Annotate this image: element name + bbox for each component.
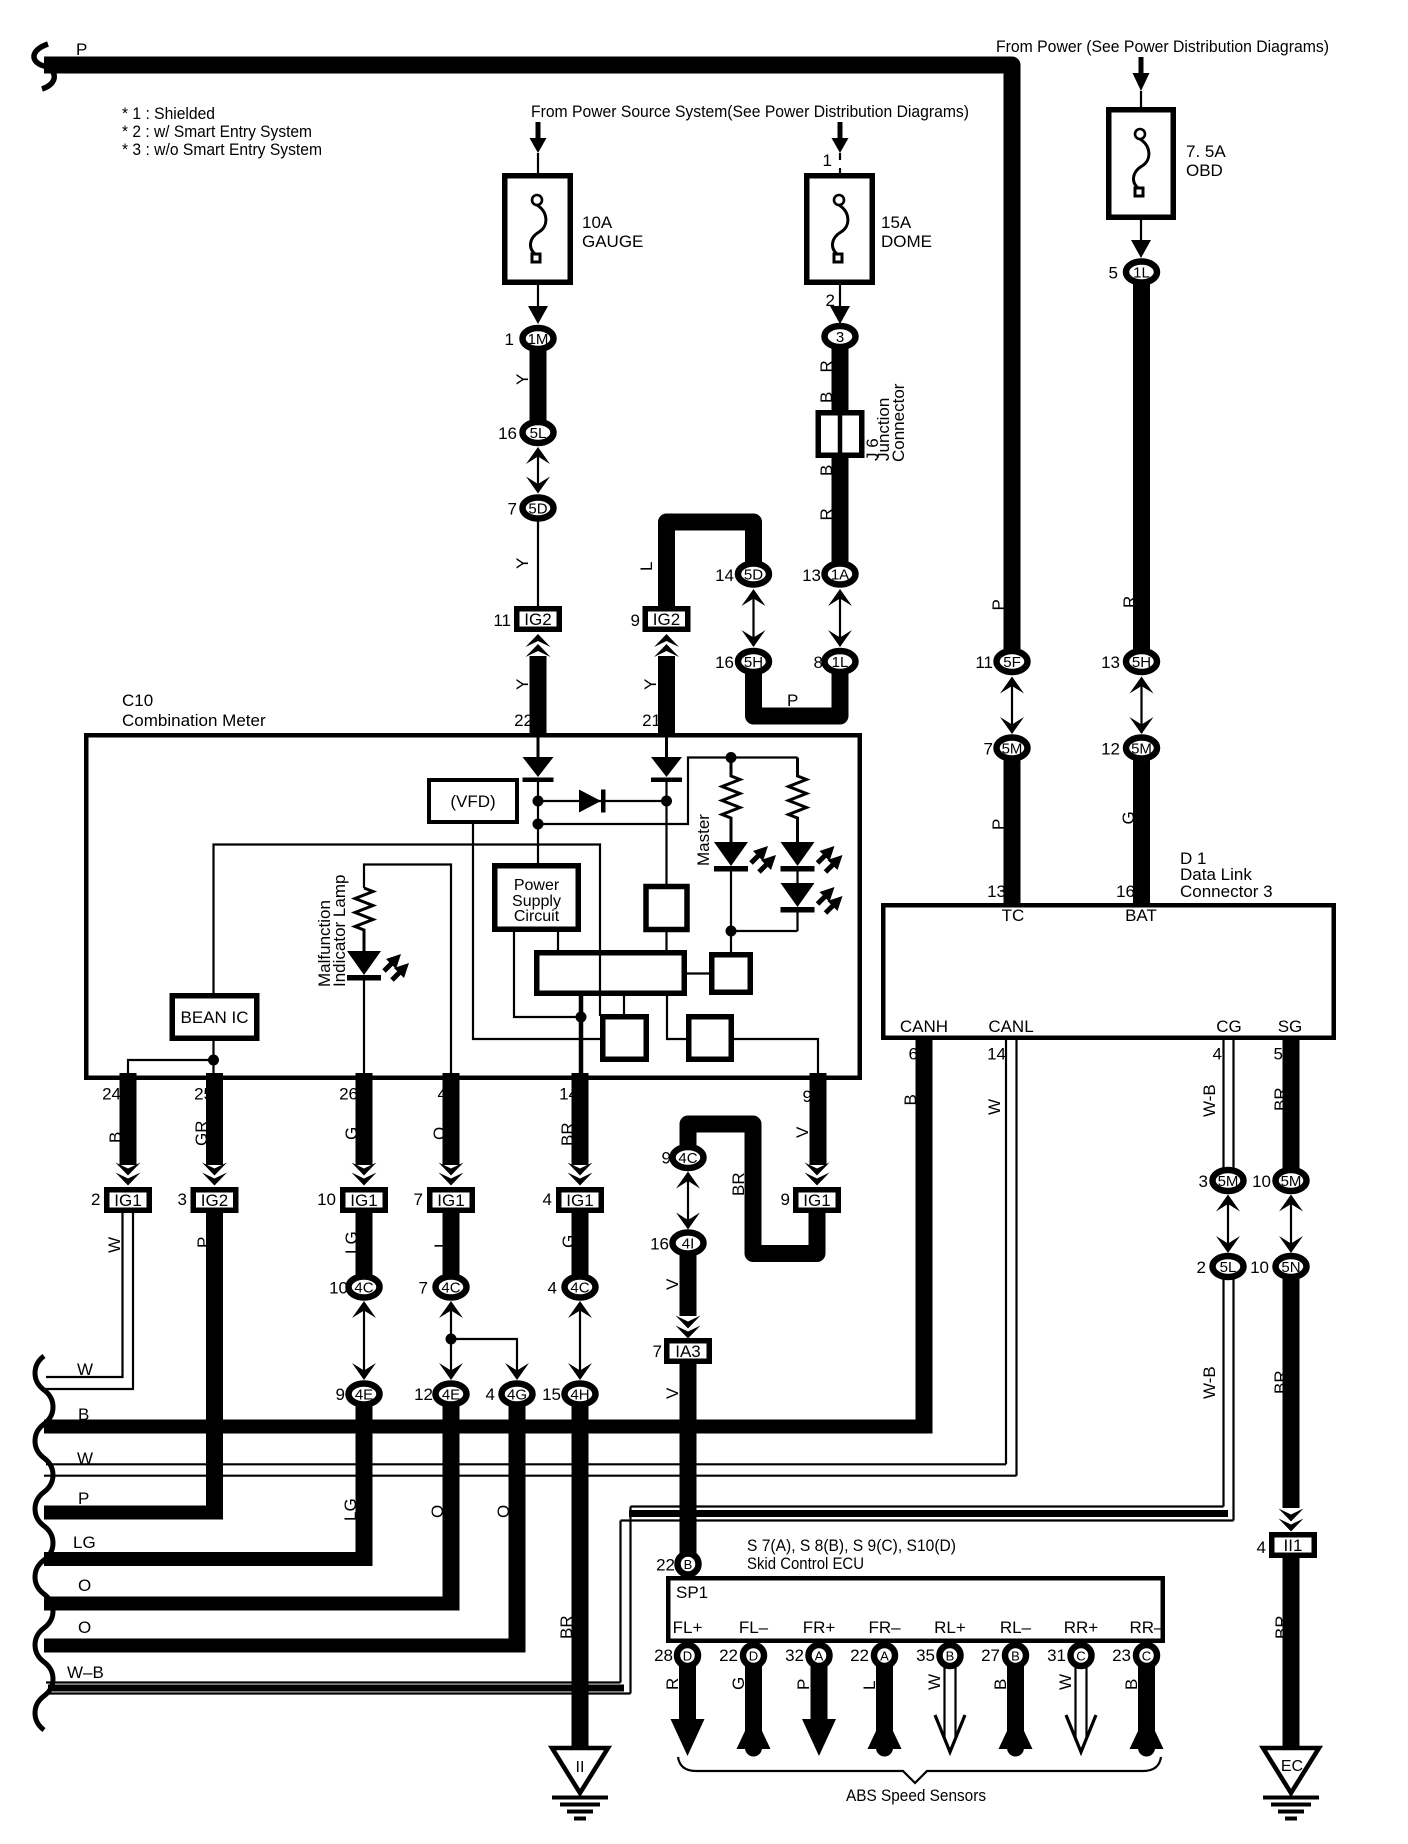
wire 5N to II1 (BR): [1283, 1278, 1300, 1508]
svg-text:II: II: [576, 1759, 585, 1776]
wire 5L(2) down W-B to corner: [1224, 1278, 1234, 1521]
svg-text:DOME: DOME: [881, 232, 932, 251]
wire pin22 internal: [537, 737, 540, 758]
svg-text:16: 16: [650, 1235, 669, 1254]
svg-text:W: W: [77, 1360, 93, 1379]
arrow up into 1A: [828, 589, 852, 606]
svg-text:10: 10: [1250, 1258, 1269, 1277]
svg-text:ABS Speed Sensors: ABS Speed Sensors: [846, 1786, 986, 1805]
box main IC: [537, 953, 685, 994]
svg-text:2: 2: [91, 1190, 100, 1209]
wire IG2 to C10 pin 22 (Y): [530, 656, 547, 747]
svg-text:W-B: W-B: [1200, 1084, 1219, 1117]
wire P bus: [44, 1506, 223, 1520]
svg-text:A: A: [880, 1649, 889, 1664]
svg-text:IA3: IA3: [675, 1342, 701, 1361]
svg-text:FR–: FR–: [868, 1618, 901, 1637]
svg-text:Circuit: Circuit: [514, 908, 560, 925]
svg-text:S 7(A), S 8(B), S 9(C), S10(D): S 7(A), S 8(B), S 9(C), S10(D): [747, 1536, 956, 1555]
svg-text:11: 11: [493, 611, 511, 630]
svg-text:RL–: RL–: [1000, 1618, 1032, 1637]
svg-text:1M: 1M: [528, 331, 549, 348]
box Power Supply Circuit: [495, 866, 579, 930]
arrow down into 5M(12): [1130, 717, 1154, 734]
wire IG1(10) to 4C (LG): [356, 1213, 373, 1277]
svg-text:P: P: [76, 40, 87, 59]
wire 4H(15) to ground II (BR): [572, 1406, 589, 1750]
svg-text:Master: Master: [694, 814, 713, 866]
svg-text:BEAN IC: BEAN IC: [180, 1008, 248, 1027]
svg-text:28: 28: [654, 1646, 673, 1665]
junction connector J6: [818, 412, 862, 456]
svg-text:16: 16: [498, 424, 517, 443]
wire S2 to pin 9: [731, 1039, 818, 1073]
svg-text:FR+: FR+: [803, 1618, 836, 1637]
svg-text:From Power (See Power Distribu: From Power (See Power Distribution Diagr…: [996, 37, 1329, 56]
wire cross link with diode: [538, 800, 667, 802]
svg-text:D: D: [749, 1649, 758, 1664]
svg-text:GAUGE: GAUGE: [582, 232, 643, 251]
svg-text:C10: C10: [122, 691, 153, 710]
svg-text:2: 2: [1197, 1258, 1206, 1277]
svg-text:* 3 : w/o Smart Entry System: * 3 : w/o Smart Entry System: [122, 140, 322, 159]
svg-text:3: 3: [1199, 1172, 1208, 1191]
arrows below 4C(10) to 4E(9): [352, 1301, 376, 1318]
svg-text:(VFD): (VFD): [450, 792, 495, 811]
svg-text:22: 22: [514, 711, 533, 730]
svg-text:7: 7: [419, 1279, 428, 1298]
LED master B2: [781, 883, 815, 907]
svg-text:BR: BR: [729, 1172, 748, 1196]
svg-text:9: 9: [336, 1385, 345, 1404]
box S1: [603, 1017, 647, 1060]
svg-text:4G: 4G: [507, 1387, 527, 1404]
ECU D1 Data Link Connector 3: [883, 905, 1334, 1038]
svg-text:4: 4: [1213, 1045, 1222, 1064]
svg-text:31: 31: [1047, 1646, 1066, 1665]
svg-text:B: B: [1011, 1649, 1020, 1664]
wire L-shape IG2(9) to 5D(14): [667, 522, 754, 608]
wire IG2(3) to P bus: [206, 1213, 223, 1520]
svg-text:CANH: CANH: [900, 1017, 948, 1036]
svg-text:W: W: [105, 1237, 124, 1253]
wire II1 to ground EC (BR): [1283, 1558, 1300, 1750]
svg-text:LG: LG: [73, 1533, 96, 1552]
wire 4E(12) to O bus: [443, 1406, 460, 1611]
svg-text:FL–: FL–: [739, 1618, 769, 1637]
svg-text:11: 11: [975, 653, 993, 672]
svg-text:R: R: [817, 508, 836, 520]
wire 1L to 5H (R): [1133, 284, 1150, 650]
wire BEAN IC to pins 24/25: [128, 1038, 214, 1073]
arrows below 4C(7), branch to 4G: [439, 1301, 463, 1318]
wire W-B bus bottom (white-black): [44, 1683, 631, 1694]
svg-text:D: D: [683, 1649, 692, 1664]
svg-text:5D: 5D: [528, 501, 547, 518]
svg-text:4: 4: [1257, 1538, 1266, 1557]
svg-text:15: 15: [542, 1385, 561, 1404]
svg-text:14: 14: [987, 1045, 1006, 1064]
wire S-path IG1(9) to 4C(9) (BR): [688, 1124, 817, 1254]
arrow up into 5M(10): [1279, 1195, 1303, 1212]
svg-text:O: O: [78, 1576, 91, 1595]
arrow down into 5D: [526, 477, 550, 494]
ground II: [552, 1748, 608, 1819]
svg-text:Y: Y: [513, 374, 532, 385]
arrow down into 5L(2): [1216, 1236, 1240, 1253]
svg-text:1L: 1L: [832, 654, 849, 671]
wire VFD to inner box S1: [473, 822, 602, 1039]
svg-text:4H: 4H: [570, 1387, 589, 1404]
svg-text:V: V: [663, 1278, 682, 1290]
svg-text:C: C: [1142, 1649, 1151, 1664]
ECU SP1 Skid Control box: [668, 1578, 1163, 1641]
svg-text:BAT: BAT: [1125, 906, 1157, 925]
svg-text:7. 5A: 7. 5A: [1186, 142, 1226, 161]
svg-text:4C: 4C: [678, 1150, 697, 1167]
svg-text:IG2: IG2: [201, 1191, 228, 1210]
box S2: [689, 1017, 732, 1060]
svg-text:Skid Control ECU: Skid Control ECU: [747, 1554, 864, 1573]
box under pin21 diode: [646, 887, 687, 930]
diode D at pin 21: [651, 757, 682, 777]
svg-text:10: 10: [1252, 1172, 1271, 1191]
svg-text:3: 3: [178, 1190, 187, 1209]
wire 5M to D1 TC (P): [1004, 760, 1021, 905]
wire W bus from CANL (double line): [1006, 1040, 1017, 1476]
svg-text:5H: 5H: [1132, 654, 1151, 671]
svg-text:10: 10: [329, 1279, 348, 1298]
svg-text:10: 10: [317, 1190, 336, 1209]
arrow up into 5M(3): [1216, 1195, 1240, 1212]
svg-text:5M: 5M: [1218, 1173, 1239, 1190]
wire to VFD rail: [538, 758, 798, 825]
fuse 15A DOME: [807, 176, 873, 283]
wire IG1(4) to 4C (G): [572, 1213, 589, 1277]
svg-text:RL+: RL+: [934, 1618, 966, 1637]
LED master A: [714, 842, 748, 866]
wire 3 to J6 (BR): [832, 348, 849, 410]
svg-text:IG2: IG2: [524, 610, 551, 629]
svg-text:4I: 4I: [682, 1236, 695, 1253]
wire IG1(7) to 4C (L): [443, 1213, 460, 1277]
svg-text:4E: 4E: [355, 1387, 373, 1404]
svg-text:OBD: OBD: [1186, 161, 1223, 180]
svg-text:Combination Meter: Combination Meter: [122, 711, 266, 730]
svg-text:4E: 4E: [442, 1387, 460, 1404]
svg-text:32: 32: [785, 1646, 804, 1665]
svg-text:L: L: [431, 1239, 450, 1248]
arrow down into 1L: [828, 630, 852, 647]
svg-text:5D: 5D: [744, 567, 763, 584]
resistor master B: [789, 758, 807, 844]
svg-text:LG: LG: [341, 1498, 360, 1521]
svg-text:B: B: [817, 392, 836, 403]
svg-text:13: 13: [1101, 653, 1120, 672]
svg-text:4: 4: [486, 1385, 495, 1404]
svg-text:BR: BR: [557, 1615, 576, 1639]
arrows up into IG2(9) bottom: [654, 634, 679, 657]
svg-text:7: 7: [414, 1190, 423, 1209]
svg-text:EC: EC: [1281, 1758, 1303, 1775]
svg-text:IG1: IG1: [566, 1191, 593, 1210]
svg-text:* 1 : Shielded: * 1 : Shielded: [122, 104, 215, 123]
svg-text:IG1: IG1: [350, 1191, 377, 1210]
diode D at pin 22: [523, 757, 554, 777]
break symbol left end of P bus: [34, 44, 54, 89]
resistor master A: [722, 758, 740, 844]
svg-text:P: P: [787, 691, 798, 710]
svg-text:13: 13: [987, 882, 1006, 901]
wire B bus from CANH: [916, 1040, 933, 1434]
wire LG bus: [44, 1552, 373, 1566]
svg-text:G: G: [342, 1127, 361, 1140]
arrow up into 5D: [742, 589, 766, 606]
wire 4G(4) to O bus 2: [509, 1406, 526, 1653]
svg-text:24: 24: [102, 1085, 121, 1104]
wire J6 to 1A (BR): [832, 458, 849, 562]
svg-text:BR: BR: [1271, 1087, 1290, 1111]
svg-text:A: A: [815, 1649, 824, 1664]
svg-text:B: B: [684, 1557, 693, 1572]
wire feed into DOME fuse: [838, 122, 843, 140]
wire master join: [731, 930, 798, 932]
svg-text:4C: 4C: [570, 1280, 589, 1297]
svg-text:R: R: [1120, 596, 1139, 608]
svg-text:4: 4: [543, 1190, 552, 1209]
svg-text:Y: Y: [513, 558, 532, 569]
svg-text:O: O: [430, 1127, 449, 1140]
wire SG BR down to 5M(10): [1283, 1040, 1300, 1170]
arrows down into II1: [1279, 1509, 1304, 1532]
svg-text:W-B: W-B: [1200, 1366, 1219, 1399]
svg-text:5: 5: [1109, 264, 1118, 283]
svg-text:W: W: [925, 1674, 944, 1690]
arrow down into 4I(16): [676, 1213, 700, 1230]
svg-text:16: 16: [1116, 882, 1135, 901]
box BEAN IC: [172, 996, 257, 1039]
svg-text:P: P: [989, 599, 1008, 610]
svg-text:W: W: [1056, 1674, 1075, 1690]
box IC right of master: [712, 955, 751, 993]
svg-text:16: 16: [715, 653, 734, 672]
svg-text:G: G: [559, 1235, 578, 1248]
svg-text:V: V: [663, 1387, 682, 1399]
wire fuse to 1M with arrow: [537, 285, 539, 308]
svg-text:5: 5: [1274, 1045, 1283, 1064]
wire CG W-B down to 5M(3): [1224, 1040, 1234, 1170]
svg-text:SP1: SP1: [676, 1583, 708, 1602]
svg-text:5L: 5L: [530, 425, 547, 442]
svg-text:22: 22: [656, 1556, 675, 1575]
svg-text:O: O: [494, 1505, 513, 1518]
svg-text:B: B: [817, 465, 836, 476]
svg-text:35: 35: [916, 1646, 935, 1665]
svg-text:O: O: [78, 1618, 91, 1637]
wire feed into OBD fuse: [1139, 57, 1144, 75]
wire feed into GAUGE fuse: [536, 122, 541, 140]
svg-text:CG: CG: [1216, 1017, 1242, 1036]
svg-text:9: 9: [631, 611, 640, 630]
connector 3: [825, 326, 856, 347]
svg-text:22: 22: [719, 1646, 738, 1665]
svg-text:7: 7: [508, 500, 517, 519]
svg-text:C: C: [1076, 1649, 1085, 1664]
svg-text:5L: 5L: [1220, 1259, 1237, 1276]
svg-text:1: 1: [823, 151, 832, 170]
node junction dots: [533, 796, 544, 807]
svg-text:10A: 10A: [582, 213, 613, 232]
svg-text:15A: 15A: [881, 213, 912, 232]
wire pin21 internal: [665, 737, 668, 758]
arrow down into 5H: [742, 630, 766, 647]
svg-text:1A: 1A: [831, 567, 849, 584]
svg-text:O: O: [428, 1505, 447, 1518]
svg-text:7: 7: [984, 740, 993, 759]
svg-text:Y: Y: [641, 679, 660, 690]
svg-text:IG1: IG1: [437, 1191, 464, 1210]
svg-text:BR: BR: [558, 1122, 577, 1146]
arrow up into 5L: [526, 447, 550, 464]
svg-text:BR: BR: [1272, 1615, 1291, 1639]
svg-text:3: 3: [836, 329, 844, 346]
svg-text:R: R: [817, 360, 836, 372]
wire W-B horizontal upper (from CG): [621, 1507, 1234, 1521]
svg-text:W–B: W–B: [67, 1663, 104, 1682]
svg-text:* 2 : w/ Smart Entry System: * 2 : w/ Smart Entry System: [122, 122, 312, 141]
wire 5D to IG2 (Y): [537, 520, 539, 606]
svg-text:5H: 5H: [744, 654, 763, 671]
arrows down into IA3: [676, 1316, 701, 1339]
svg-text:B: B: [901, 1094, 920, 1105]
svg-text:B: B: [946, 1649, 955, 1664]
svg-text:P: P: [78, 1489, 89, 1508]
svg-text:SG: SG: [1278, 1017, 1303, 1036]
svg-text:22: 22: [850, 1646, 869, 1665]
box (VFD): [429, 780, 517, 822]
svg-text:Power: Power: [514, 877, 560, 894]
wire 5M to D1 BAT (G): [1133, 760, 1150, 905]
svg-text:9: 9: [781, 1190, 790, 1209]
arrows up into IG2 bottom: [526, 634, 551, 657]
svg-text:BR: BR: [1271, 1370, 1290, 1394]
wire O bus 2: [44, 1639, 526, 1653]
arrow down into 5M: [1000, 717, 1024, 734]
wire IC bottom stubs: [579, 996, 584, 1073]
arrow up into 5H(13): [1130, 677, 1154, 694]
svg-text:P: P: [794, 1679, 813, 1690]
fuse 10A GAUGE: [505, 176, 571, 283]
svg-text:4C: 4C: [354, 1280, 373, 1297]
wire fuse to 1L with arrow: [1140, 217, 1142, 242]
svg-text:1L: 1L: [1133, 265, 1150, 282]
svg-text:V: V: [793, 1126, 812, 1138]
arrow down into 5N(10): [1279, 1236, 1303, 1253]
wire IA3 to B(22) (V): [680, 1364, 697, 1554]
wire PSC stubs: [514, 932, 581, 1017]
svg-text:Indicator Lamp: Indicator Lamp: [330, 875, 349, 987]
svg-text:IG2: IG2: [653, 610, 680, 629]
svg-text:G: G: [1119, 811, 1138, 824]
svg-text:Y: Y: [513, 679, 532, 690]
wire inner thin frame BEAN IC to S1: [214, 845, 601, 1017]
svg-text:5M: 5M: [1131, 741, 1152, 758]
svg-text:4C: 4C: [441, 1280, 460, 1297]
wire O bus: [44, 1597, 460, 1611]
svg-text:L: L: [637, 562, 656, 571]
ECU C10 Combination Meter box: [86, 735, 860, 1078]
diode pointing right: [579, 790, 601, 813]
svg-text:26: 26: [339, 1085, 358, 1104]
svg-text:12: 12: [414, 1385, 433, 1404]
svg-text:5F: 5F: [1003, 654, 1021, 671]
svg-text:7: 7: [653, 1342, 662, 1361]
svg-text:6: 6: [909, 1045, 918, 1064]
ground EC: [1263, 1748, 1319, 1819]
svg-text:5M: 5M: [1002, 741, 1023, 758]
svg-text:GR: GR: [192, 1121, 211, 1147]
wire malfunction lamp frame: [364, 865, 451, 1074]
svg-text:II1: II1: [1284, 1536, 1303, 1555]
svg-text:27: 27: [981, 1646, 1000, 1665]
svg-text:CANL: CANL: [988, 1017, 1033, 1036]
svg-text:4: 4: [548, 1279, 557, 1298]
svg-text:IG1: IG1: [114, 1191, 141, 1210]
svg-text:P: P: [989, 819, 1008, 830]
wire 4E(9) to LG bus: [356, 1406, 373, 1566]
resistor malfunction lamp: [355, 888, 373, 951]
svg-text:LG: LG: [342, 1231, 361, 1254]
wire 1M to 5L (Y): [530, 350, 547, 421]
wire U-shape 5H to 1L (P): [754, 673, 841, 716]
break squiggle left edge bottom: [35, 1356, 53, 1730]
svg-text:RR+: RR+: [1064, 1618, 1099, 1637]
wire 4I to IA3 (V): [680, 1255, 697, 1316]
svg-text:Connector: Connector: [889, 383, 908, 462]
brace ABS Speed Sensors: [678, 1757, 1161, 1783]
arrow up into 4C(9): [676, 1172, 700, 1189]
svg-text:W: W: [985, 1099, 1004, 1115]
fuse 7.5A OBD: [1109, 110, 1174, 218]
wire P main power bus from page left to TC column: [44, 65, 1012, 652]
svg-text:RR–: RR–: [1129, 1618, 1164, 1637]
svg-text:IG1: IG1: [803, 1191, 830, 1210]
arrow up into 5F: [1000, 677, 1024, 694]
svg-text:13: 13: [802, 566, 821, 585]
wire W-B riser x=625: [621, 1507, 631, 1694]
arrows below 4C(4) to 4H(15): [568, 1301, 592, 1318]
svg-text:FL+: FL+: [673, 1618, 703, 1637]
svg-text:From Power Source System(See P: From Power Source System(See Power Distr…: [531, 102, 969, 121]
arrow into connector 3: [830, 306, 850, 324]
svg-text:Connector 3: Connector 3: [1180, 882, 1273, 901]
wire IG2(9) to C10 pin 21 (Y): [658, 656, 675, 747]
svg-text:P: P: [194, 1237, 213, 1248]
LED master B1: [781, 842, 815, 866]
svg-text:5N: 5N: [1281, 1259, 1300, 1276]
svg-text:12: 12: [1101, 740, 1120, 759]
svg-text:23: 23: [1112, 1646, 1131, 1665]
svg-text:1: 1: [505, 330, 514, 349]
wire IG1(2) to W bus: [44, 1213, 133, 1389]
svg-text:TC: TC: [1002, 906, 1025, 925]
svg-text:14: 14: [715, 566, 734, 585]
svg-text:5M: 5M: [1281, 1173, 1302, 1190]
svg-text:21: 21: [642, 711, 661, 730]
LED malfunction indicator: [347, 951, 381, 975]
svg-text:B: B: [106, 1132, 125, 1143]
